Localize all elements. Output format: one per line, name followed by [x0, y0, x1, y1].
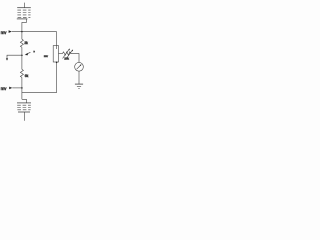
wire battery B1 to bus: [22, 19, 27, 32]
wire to photoresistor: [59, 53, 63, 55]
battery B1: [17, 8, 31, 19]
wire top bus: [12, 31, 57, 33]
photoresistor R4: [62, 52, 71, 55]
wire box bottom down: [56, 62, 58, 93]
resistor R3 box: [53, 46, 58, 62]
resistor R1: [20, 39, 23, 47]
svg-text:mv: mv: [1, 86, 7, 91]
wire input 2: [12, 87, 22, 89]
wire right branch down: [56, 32, 58, 49]
terminal arrow input 2: [9, 87, 12, 90]
node bus/battery junction: [21, 31, 23, 32]
wire rail lower: [21, 77, 23, 99]
battery B2: [17, 103, 31, 112]
svg-text:6k: 6k: [25, 74, 29, 78]
ground: [75, 84, 83, 88]
svg-text:10k: 10k: [64, 57, 69, 61]
arrows on R4: [63, 48, 74, 59]
wire rail mid: [21, 47, 23, 69]
wire rail upper: [21, 32, 23, 40]
svg-text:2k: 2k: [24, 41, 28, 45]
wire meter to ground: [78, 71, 80, 84]
node tap junction: [21, 54, 23, 56]
svg-text:mv: mv: [44, 54, 48, 58]
wire bottom return: [22, 92, 57, 94]
battery B2 bottom stub: [24, 112, 26, 121]
svg-text:×: ×: [33, 50, 35, 54]
wire R4 to meter: [71, 54, 79, 63]
terminal arrow tap end: [6, 58, 8, 60]
wire jog to battery B2: [22, 99, 27, 102]
terminal arrow input 1: [9, 30, 12, 33]
wire left tap: [7, 55, 22, 58]
svg-text:mv: mv: [1, 30, 7, 35]
galvanometer G: [75, 62, 84, 71]
wiper arrow at junction: [25, 52, 31, 55]
battery B1 top stub: [23, 3, 25, 8]
resistor R2: [20, 69, 23, 77]
